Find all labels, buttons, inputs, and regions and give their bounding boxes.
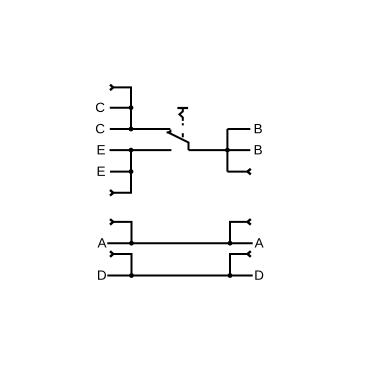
wire B1 stub: [227, 128, 250, 130]
wire E1 to open contact: [110, 149, 172, 151]
label C2: [96, 124, 105, 134]
label C1: [96, 103, 105, 113]
terminal plug D left: [110, 251, 113, 257]
actuator dashed link: [182, 123, 184, 137]
wire A line: [107, 242, 252, 244]
terminal plug D right: [248, 251, 251, 257]
label E1: [98, 145, 105, 154]
wire C2 to switch contact: [110, 128, 171, 130]
wire A left elbow: [113, 222, 132, 243]
wire D line: [107, 275, 252, 277]
wire bottom-right elbow: [227, 171, 247, 173]
terminal plug bottom-left: [110, 190, 113, 196]
terminal plug A left: [110, 219, 113, 225]
junction E2: [129, 169, 134, 174]
terminal plug A right: [248, 219, 251, 225]
label A left: [98, 238, 107, 247]
wire E2 stub: [110, 171, 131, 173]
switch S1 fixed contact hook: [167, 130, 171, 133]
junction C2: [129, 127, 134, 132]
junction E1: [129, 148, 134, 153]
wire right B bus: [226, 129, 228, 172]
junction D right: [228, 273, 233, 278]
terminal plug right of E bus: [248, 169, 251, 175]
terminal plug top-left: [110, 85, 113, 91]
switch S1 blade: [168, 132, 189, 150]
junction B2: [225, 148, 230, 153]
wire A right elbow: [230, 222, 248, 243]
junction D left: [129, 273, 134, 278]
junction A right: [228, 241, 233, 246]
label D left: [98, 271, 106, 280]
junction C1: [129, 105, 134, 110]
label B2: [255, 145, 262, 154]
actuator stem with kink: [179, 108, 182, 121]
wire E bus to bottom-left elbow: [113, 150, 131, 193]
wire D right elbow: [230, 254, 248, 276]
label B1: [255, 124, 262, 133]
label D right: [255, 271, 263, 280]
wire B2 stub: [227, 149, 250, 151]
label E2: [98, 167, 105, 176]
junction A left: [129, 241, 134, 246]
wire top-left elbow to C bus: [113, 87, 131, 129]
wire switch pivot to right bus: [189, 149, 228, 151]
wire C1 stub: [110, 107, 131, 109]
actuator T-bar: [177, 107, 188, 109]
label A right: [255, 238, 264, 247]
wire D left elbow: [113, 254, 132, 276]
